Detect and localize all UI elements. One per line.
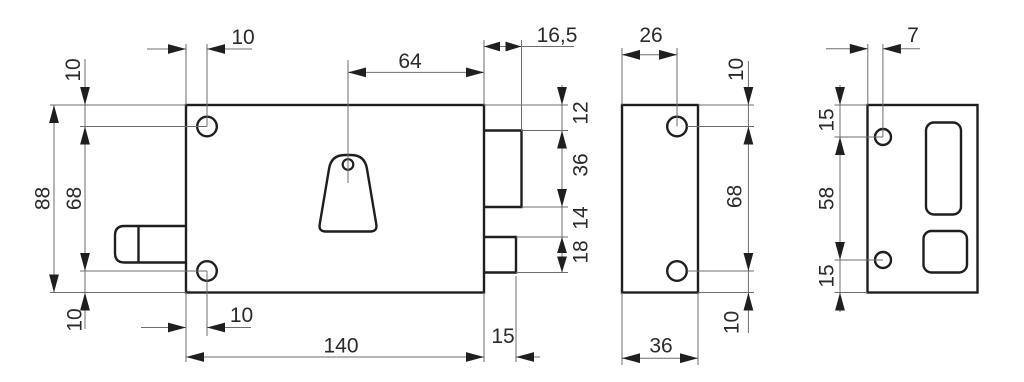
dim text 10 top-left [231,26,254,49]
cylinder knob on left side of case [115,226,186,263]
dim 16,5 extension line bolt right edge [521,40,523,131]
dim text 36 [569,153,592,176]
plate chain arrow up at top hole [835,137,845,155]
svg-text:18: 18 [569,240,592,263]
dim 26 extension line edge left [621,48,623,105]
dim 36 arrow right [680,353,698,363]
dim text 15 [491,325,514,348]
dim 10 arrow left-pointing [207,44,225,54]
left chain arrow down at top edge [80,87,90,105]
chain dimension line left of case [84,59,86,329]
dim 7 arrow right-pointing [850,44,868,54]
dim text 10 left-top [62,58,85,81]
ext line edge bottom right [698,292,754,294]
ext line case top edge right [484,104,568,106]
svg-text:64: 64 [398,50,422,73]
svg-text:36: 36 [649,334,672,357]
lock edge view outline [622,105,698,293]
dim 10 leader left [147,48,186,50]
ext line case right edge below [483,293,485,363]
strike plate top screw hole [875,129,891,145]
svg-text:10: 10 [230,304,253,327]
dim 7 arrow left-pointing [883,44,901,54]
ext line edge right below [697,293,699,366]
deadbolt protruding right (36 high) [484,131,522,208]
dim text 16,5 [537,24,578,47]
dim 10 bottom leader left [141,327,186,329]
dim 140 line [186,356,484,358]
dim 26 line [622,54,677,56]
edge chain arrow up at bottom [744,293,754,311]
chain arrow down at case top [557,87,567,105]
dim text 88 [31,187,54,210]
ext line bottom hole centerline left [80,270,207,272]
dim text 68 left [63,187,86,210]
plate chain dimension line [839,85,841,312]
dim 64 line [348,71,484,73]
knob cap divider line [137,226,139,263]
strike plate deadbolt slot [926,123,961,215]
dim 10 extension line at hole centerline [206,44,208,127]
dim 36 arrow left [622,353,640,363]
chain dimension line right of case [561,85,563,273]
svg-text:10: 10 [725,58,748,81]
dim text 14 [569,206,592,230]
svg-text:10: 10 [63,308,86,331]
dim 15 arrow left-pointing with tail [516,352,540,362]
svg-text:16,5: 16,5 [537,24,578,47]
chain arrow up at deadbolt top [557,131,567,149]
dim text 58 plate [815,187,838,210]
svg-text:10: 10 [720,311,743,334]
ext line hole centerline below [206,271,208,336]
dim text 12 [569,101,592,124]
plate chain arrow down at top [835,87,845,105]
ext line plate top left [835,104,868,106]
ext line case bottom edge left [50,292,186,294]
edge chain arrow down at bottom hole [744,253,754,271]
dim 140 arrow left [186,352,204,362]
edge chain dimension line [747,61,749,333]
dim text 10 bottom [230,304,253,327]
svg-text:26: 26 [639,24,662,47]
left chain arrow down at bottom hole [80,253,90,271]
dim 26 extension line hole centerline [676,48,678,127]
dim 10 leader right [207,48,252,50]
ext line edge top hole right [687,126,754,128]
svg-text:10: 10 [62,58,85,81]
edge chain arrow down at top [744,87,754,105]
svg-text:14: 14 [569,206,592,230]
fixing hole top-left of case [197,117,217,137]
dim 88 line [53,105,55,293]
left chain arrow up at top hole [80,127,90,145]
dim text 10 edge-bottom [720,311,743,334]
strike plate outline [868,105,978,293]
dim 7 extension line plate left edge [867,44,869,105]
dim 7 leader right [883,48,920,50]
dim 64 extension line keyhole centerline [347,60,349,183]
ext line latch bottom edge [516,272,568,274]
ext line case left edge below [185,293,187,363]
edge view top fixing hole [667,117,687,137]
dim 64 arrow left [348,68,366,78]
ext line edge bottom hole right [687,270,754,272]
fixing hole bottom-left of case [197,261,217,281]
dim 64 arrow right [466,68,484,78]
svg-text:10: 10 [231,26,254,49]
dim 88 arrow up [49,105,59,123]
dim 16,5 arrow right [506,42,522,52]
dim 10 extension line at case left edge [185,44,187,105]
svg-text:68: 68 [63,187,86,210]
svg-text:7: 7 [907,24,919,47]
svg-text:15: 15 [815,108,838,131]
plate chain arrow up at bottom [835,293,845,311]
ext line latch right edge below [515,276,517,362]
dim text 68 edge [723,185,746,208]
dim 140 arrow right [466,352,484,362]
svg-text:15: 15 [491,325,514,348]
edge chain arrow up at top hole [744,127,754,145]
dim 36 line [622,357,698,359]
dim text 15 plate-bottom [815,264,838,287]
dim 88 arrow down [49,275,59,293]
svg-text:15: 15 [815,264,838,287]
ext line top hole centerline left [80,126,207,128]
dim text 26 [639,24,662,47]
svg-text:58: 58 [815,187,838,210]
ext line case top edge left [50,104,186,106]
dim 16,5 line and leader [484,46,574,48]
ext line plate bottom left [835,292,868,294]
ext line latch top edge [516,236,568,238]
dim 10 bottom arrow left-pointing [207,323,225,333]
dim text 15 plate-top [815,108,838,131]
lock case body (main view outline) [186,105,484,293]
dim text 7 [907,24,919,47]
chain arrow down at latch bottom [557,257,567,273]
dim text 64 [398,50,422,73]
dim 26 arrow right [659,50,677,60]
chain arrow down at deadbolt bottom [557,189,567,207]
ext line deadbolt top edge [522,130,569,132]
svg-text:88: 88 [31,187,54,210]
keyhole pivot circle [343,159,354,170]
strike plate bottom screw hole [875,252,891,268]
dim 10 arrow right-pointing [168,44,186,54]
svg-text:68: 68 [723,185,746,208]
dim 10 bottom leader right [207,327,251,329]
dim 10 bottom arrow right-pointing [168,323,186,333]
dim 26 arrow left [622,50,640,60]
dim text 36 bottom [649,334,672,357]
plate chain arrow down at bottom hole [835,242,845,260]
svg-text:12: 12 [569,101,592,124]
dim 64 extension line case right edge [483,40,485,105]
dim 16,5 arrow left [484,42,500,52]
ext line plate bottom hole left [835,259,884,261]
chain arrow up at latch top [557,237,567,253]
ext line edge top right [698,104,754,106]
edge view bottom fixing hole [667,261,687,281]
left chain arrow up at bottom edge [80,293,90,311]
ext line deadbolt bottom edge [522,206,569,208]
strike plate latch slot [924,231,968,273]
dim 7 extension line hole centerline [882,44,884,137]
keyhole escutcheon (rounded trapezoid) [320,155,377,232]
ext line plate top hole left [835,136,884,138]
dim text 140 [323,334,358,357]
dim text 10 edge-top [725,58,748,81]
dim text 10 left-bottom [63,308,86,331]
dim 7 leader left [826,48,868,50]
svg-text:36: 36 [569,153,592,176]
ext line edge left below [621,293,623,366]
latch bolt protruding right (18 high) [484,237,516,273]
svg-text:140: 140 [323,334,358,357]
dim text 18 [569,240,592,263]
